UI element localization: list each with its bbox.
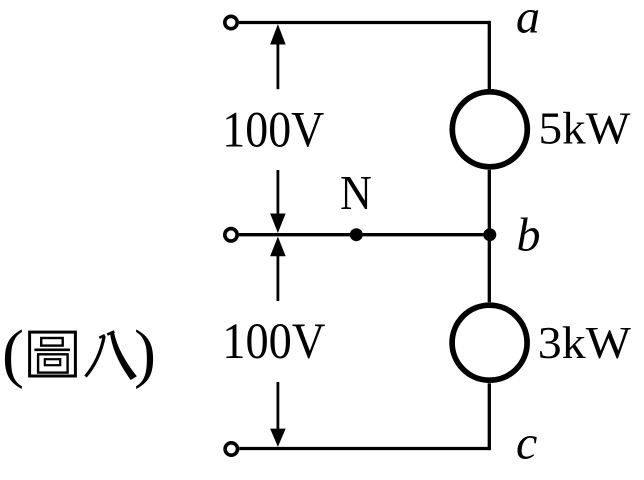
dimension arrow down to middle wire <box>270 170 286 233</box>
svg-text:100V: 100V <box>222 314 325 370</box>
dimension arrow up to middle wire (from below) <box>270 237 286 301</box>
wire: vertical from node b to 3kW load top <box>488 235 491 303</box>
terminal (bottom-left open circle) <box>225 443 237 455</box>
node b junction dot <box>483 228 496 241</box>
terminal (top-left open circle) <box>225 16 237 28</box>
svg-text:3kW: 3kW <box>538 317 632 368</box>
dimension arrow up to top wire <box>270 24 286 89</box>
terminal (middle-left open circle) <box>225 229 237 241</box>
svg-text:100V: 100V <box>222 103 324 159</box>
caption glyph 圖 <box>30 332 76 376</box>
svg-text:a: a <box>516 0 540 44</box>
dimension arrow down to bottom wire <box>270 382 286 447</box>
bottom wire c-line <box>239 447 491 450</box>
svg-text:b: b <box>517 209 541 262</box>
svg-text:c: c <box>516 417 537 470</box>
wire: vertical from 3kW load bottom to c corner <box>488 383 491 450</box>
load U2 circle 3kW <box>452 305 527 380</box>
wire: right vertical from a corner to 5kW load top <box>488 21 491 89</box>
node N junction dot <box>350 228 363 241</box>
load U1 circle 5kW <box>452 92 527 167</box>
wire: vertical between 5kW load and node b <box>488 170 491 235</box>
caption glyph 八 <box>86 331 137 379</box>
svg-text:): ) <box>134 317 156 390</box>
svg-text:5kW: 5kW <box>539 102 631 153</box>
middle wire N-line <box>239 233 489 236</box>
svg-text:(: ( <box>2 317 24 390</box>
top wire a-line <box>239 21 489 24</box>
svg-text:N: N <box>340 165 372 220</box>
